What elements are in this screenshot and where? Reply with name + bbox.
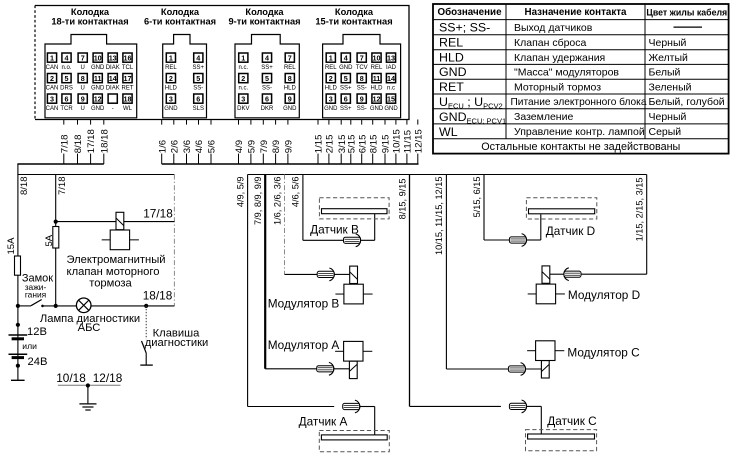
svg-text:4: 4 (65, 53, 69, 62)
svg-text:DRS: DRS (60, 86, 73, 92)
svg-text:9-ти контактная: 9-ти контактная (228, 16, 300, 26)
svg-text:"Масса" модуляторов: "Масса" модуляторов (514, 67, 619, 79)
svg-text:2: 2 (169, 74, 173, 83)
table row 4: "Масса" модуляторов (439, 65, 681, 79)
wire 18/18 (bottom horizontal) (18, 305, 175, 307)
wire plug to sensor C (526, 406, 541, 434)
svg-text:6: 6 (65, 94, 69, 103)
node: junction 7/18 wire at 18/18 (54, 304, 58, 308)
svg-text:17/18: 17/18 (143, 207, 173, 221)
wire stub pin 8/18 (72, 120, 84, 165)
svg-text:7: 7 (288, 53, 292, 62)
svg-text:8/15: 8/15 (368, 135, 379, 154)
svg-text:Электромагнитный: Электромагнитный (66, 254, 165, 266)
label channel 5/15, 6/15 (472, 177, 482, 218)
connector X2 6-pin (163, 35, 207, 118)
label: Датчик D (546, 224, 595, 238)
svg-text:DKR: DKR (261, 106, 274, 112)
modulator A valve (mirrored) (335, 341, 372, 378)
label: или (or) (22, 341, 37, 351)
pin 3 CAN of X1 18-pin (46, 94, 59, 112)
svg-text:DKV: DKV (237, 106, 249, 112)
pin 7 TCV of X4 15-pin (356, 53, 368, 71)
pin 4 GND of X4 15-pin (339, 53, 353, 71)
svg-text:Белый: Белый (649, 67, 681, 79)
svg-text:n.o.: n.o. (61, 65, 71, 71)
wire stub pin 4/6 (193, 120, 205, 165)
svg-text:7/18: 7/18 (59, 135, 70, 154)
pin 10 GND of X1 18-pin (91, 53, 105, 71)
wire stub pin 9/9 (283, 120, 295, 165)
svg-text:17: 17 (124, 74, 132, 83)
wire stub pin 11/15 (402, 120, 414, 165)
pin 11 HLD of X4 15-pin (370, 74, 383, 92)
pin 1 REL of X2 6-pin (165, 53, 177, 71)
plug connector modulator D (564, 268, 581, 281)
label channel 7/9, 8/9, 9/9 (253, 177, 263, 226)
pin 2 CAN of X1 18-pin (46, 74, 59, 92)
svg-text:18/18: 18/18 (99, 129, 110, 153)
svg-text:10: 10 (94, 53, 102, 62)
svg-text:RET: RET (439, 80, 464, 94)
svg-text:5/15: 5/15 (346, 135, 357, 154)
svg-text:13: 13 (109, 53, 117, 62)
table row 2: Клапан сброса (439, 36, 687, 50)
svg-text:10/18: 10/18 (56, 371, 86, 385)
wire channel 4/6,5/6 (sensor B) (303, 175, 375, 241)
sensor D element (526, 198, 596, 219)
battery G2 24V (9, 354, 28, 368)
node: junction 7/18 - 17/18 (54, 220, 58, 224)
svg-text:GND: GND (91, 106, 105, 112)
wire 7/18 (vertical through 5A fuse) (55, 175, 57, 306)
svg-text:Черный: Черный (649, 37, 687, 49)
svg-text:Датчик D: Датчик D (546, 224, 595, 238)
svg-text:18-ти контактная: 18-ти контактная (51, 16, 128, 26)
label wires 10/18 12/18 (56, 371, 122, 385)
wire stub pin 3/6 (181, 120, 193, 165)
label: Модулятор C (567, 345, 640, 359)
svg-text:3: 3 (169, 94, 173, 103)
svg-text:8: 8 (288, 74, 292, 83)
label wire 8/18 (19, 177, 30, 196)
pin 8 SS- of X4 15-pin (357, 74, 367, 92)
label channel 10/15, 11/15, 12/15 (434, 177, 444, 256)
wire stub pin 2/6 (168, 120, 180, 165)
table footer: unused contacts note (481, 141, 680, 153)
svg-text:Обозначение: Обозначение (437, 7, 502, 18)
svg-text:4: 4 (265, 53, 269, 62)
svg-text:TCL: TCL (122, 65, 134, 71)
svg-text:7/9: 7/9 (259, 140, 270, 153)
svg-text:13: 13 (387, 53, 395, 62)
table row 1: Выход датчиков (439, 21, 702, 35)
svg-text:SS+: SS+ (193, 65, 205, 71)
battery negative terminal bar (11, 379, 25, 381)
label wire 7/18 (57, 177, 68, 196)
svg-text:6/15: 6/15 (357, 135, 368, 154)
svg-text:GND: GND (164, 106, 178, 112)
svg-text:Модулятор C: Модулятор C (567, 345, 640, 359)
svg-text:n.c.: n.c. (238, 86, 248, 92)
pin 1 CAN of X1 18-pin (46, 53, 59, 71)
svg-text:8: 8 (360, 74, 364, 83)
svg-text:Серый: Серый (649, 126, 682, 138)
wire bus segment B (6/9/15-pin harness) (162, 163, 419, 165)
svg-text:REL: REL (371, 65, 383, 71)
svg-text:DIAK: DIAK (106, 86, 120, 92)
svg-text:SS+: SS+ (340, 106, 352, 112)
svg-text:GND: GND (283, 106, 297, 112)
svg-text:GND: GND (439, 65, 467, 79)
fuse F1 15A (15, 256, 21, 275)
table row 8: Управление контр. лампой (439, 125, 681, 139)
lamp H1 ABS diagnostic lamp (76, 298, 91, 313)
wire channel 8/15,9/15 (sensor C) (410, 175, 501, 407)
wire stub pin 5/15 (345, 120, 357, 165)
table row 7: Заземление (439, 110, 687, 126)
svg-text:SS-: SS- (262, 86, 272, 92)
pin 2 n.c. of X3 9-pin (238, 74, 248, 92)
svg-text:DIAK: DIAK (106, 65, 120, 71)
svg-text:7/18: 7/18 (57, 177, 68, 196)
svg-text:3: 3 (241, 94, 245, 103)
wire stub pin 1/6 (156, 120, 168, 165)
label channel 8/15, 9/15 (397, 179, 407, 220)
pin 16 TCL of X1 18-pin (122, 53, 134, 71)
modulator B valve (335, 266, 372, 304)
plug connector sensor A (343, 400, 360, 413)
wire plug to modulator A (334, 368, 350, 370)
plug connector sensor C (509, 400, 526, 413)
sensor A element (319, 431, 389, 452)
svg-text:6: 6 (344, 94, 348, 103)
wire channel 7/9,8/9,9/9 (modulator A) (265, 175, 327, 369)
label: Клавиша диагностики (145, 327, 209, 349)
svg-text:SLS: SLS (193, 106, 204, 112)
wire plug to modulator B (334, 273, 350, 275)
svg-text:Датчик B: Датчик B (310, 223, 359, 237)
svg-text:2: 2 (50, 74, 54, 83)
svg-text:2/15: 2/15 (325, 135, 336, 154)
wire channel 4/9,5/9 (sensor A) (248, 175, 335, 407)
svg-text:5/6: 5/6 (207, 140, 218, 153)
svg-text:U: U (81, 65, 85, 71)
svg-text:4/9, 5/9: 4/9, 5/9 (235, 177, 245, 208)
connector X4 15-pin (323, 35, 401, 118)
svg-text:3/6: 3/6 (182, 140, 193, 153)
svg-text:14: 14 (387, 74, 395, 83)
label: Датчик A (299, 415, 348, 429)
left block top edge (17, 174, 174, 176)
pin 3 DKV of X3 9-pin (237, 94, 249, 112)
pin 5 SS- of X2 6-pin (193, 74, 203, 92)
wire 17/18 (to electromagnetic valve) (56, 221, 175, 223)
svg-text:WL: WL (123, 106, 133, 112)
svg-text:8: 8 (81, 74, 85, 83)
left block dashed right edge (173, 175, 175, 306)
svg-text:5/15, 6/15: 5/15, 6/15 (472, 177, 482, 218)
wire 8/18 (left vertical feed) (17, 164, 19, 306)
svg-text:10/15, 11/15, 12/15: 10/15, 11/15, 12/15 (434, 177, 444, 256)
pin 10 REL of X4 15-pin (371, 53, 383, 71)
pin 9 GND of X3 9-pin (283, 94, 297, 112)
pin 5 SS+ of X4 15-pin (340, 74, 352, 92)
label channel 1/6, 2/6, 3/6 (272, 177, 282, 226)
svg-text:11: 11 (94, 74, 102, 83)
wire channel 1/15,2/15,3/15 (modulator D, right edge) (575, 175, 647, 275)
svg-text:9: 9 (288, 94, 292, 103)
wire plug to sensor A (360, 407, 375, 435)
svg-text:HLD: HLD (439, 50, 464, 64)
svg-text:7: 7 (360, 53, 364, 62)
label battery 12В (27, 326, 47, 338)
label: Электромагнитный клапан моторного тормоза (66, 254, 165, 290)
pin 6 TCR of X1 18-pin (60, 94, 73, 112)
wire stub pin 18/18 (98, 120, 110, 165)
label: title connector 18-ти контактная (51, 7, 128, 26)
svg-text:1/15, 2/15, 3/15: 1/15, 2/15, 3/15 (635, 178, 645, 242)
svg-text:HLD: HLD (325, 86, 338, 92)
wire stub pin 17/18 (85, 120, 97, 165)
svg-text:3: 3 (50, 94, 54, 103)
label: Лампа диагностики АБС (40, 313, 140, 334)
wire stub pin 10/15 (391, 120, 403, 165)
svg-text:2/6: 2/6 (169, 140, 180, 153)
label: Датчик B (310, 223, 359, 237)
svg-text:IAD: IAD (386, 65, 397, 71)
pin 2 HLD of X2 6-pin (165, 74, 178, 92)
svg-text:гания: гания (25, 289, 46, 299)
svg-text:12: 12 (94, 94, 102, 103)
svg-text:4/6, 5/6: 4/6, 5/6 (291, 177, 301, 208)
svg-text:1/6, 2/6, 3/6: 1/6, 2/6, 3/6 (272, 177, 282, 226)
svg-text:6: 6 (196, 94, 200, 103)
table row 5: Моторный тормоз (439, 80, 692, 94)
svg-text:HLD: HLD (284, 86, 297, 92)
plug connector sensor B (344, 234, 361, 247)
pin 8 U of X1 18-pin (78, 74, 87, 92)
svg-text:11/15: 11/15 (403, 130, 414, 153)
pin 13 IAD of X4 15-pin (386, 53, 397, 71)
wire channel 1/6,2/6,3/6 (modulator B, dash-dot) (285, 175, 328, 275)
svg-text:7: 7 (81, 53, 85, 62)
svg-text:4/9: 4/9 (234, 140, 245, 153)
connector X3 9-pin (235, 35, 299, 118)
svg-text:Выход датчиков: Выход датчиков (514, 22, 593, 34)
svg-text:Модулятор D: Модулятор D (568, 288, 640, 302)
node: junction diagnostic key tap (144, 304, 148, 308)
svg-text:2: 2 (241, 74, 245, 83)
svg-text:5: 5 (196, 74, 200, 83)
ground symbol (79, 404, 96, 410)
svg-text:тормоза: тормоза (89, 278, 132, 290)
svg-text:8/18: 8/18 (19, 177, 30, 196)
svg-text:Желтый: Желтый (649, 52, 689, 64)
label: title connector 15-ти контактная (315, 7, 392, 26)
svg-text:9: 9 (360, 94, 364, 103)
svg-text:11: 11 (373, 74, 381, 83)
pin 12 GND of X4 15-pin (370, 94, 384, 112)
pin 15 GND of X4 15-pin (384, 94, 398, 112)
pin 9 SS- of X4 15-pin (357, 94, 367, 112)
svg-text:REL: REL (439, 36, 463, 50)
svg-text:7/9, 8/9, 9/9: 7/9, 8/9, 9/9 (253, 177, 263, 226)
svg-text:TCV: TCV (356, 65, 368, 71)
sensor C element (526, 430, 597, 451)
pin blank - of X1 18-pin (108, 94, 117, 112)
pin 9 U of X1 18-pin (78, 94, 87, 112)
wire channel 10/15,11/15,12/15 (modulator C) (446, 175, 508, 370)
svg-text:1: 1 (329, 53, 333, 62)
label wire 17/18 (143, 207, 173, 221)
wire stub pin 8/9 (270, 120, 282, 165)
modulator D valve (528, 266, 565, 304)
svg-text:-: - (112, 106, 114, 112)
pin 11 GND of X1 18-pin (91, 74, 105, 92)
svg-text:8/18: 8/18 (73, 135, 84, 154)
svg-text:18/18: 18/18 (143, 289, 173, 303)
pin 3 GND of X4 15-pin (324, 94, 338, 112)
svg-text:24В: 24В (28, 356, 48, 368)
pin 4 n.o. of X1 18-pin (61, 53, 71, 71)
wire plug to modulator C (525, 368, 541, 370)
svg-text:12/15: 12/15 (413, 129, 424, 153)
svg-text:Остальные контакты не задейств: Остальные контакты не задействованы (481, 141, 680, 153)
svg-text:GND: GND (91, 86, 105, 92)
label: Модулятор B (268, 296, 340, 310)
svg-text:клапан моторного: клапан моторного (67, 266, 160, 278)
svg-text:5: 5 (65, 74, 69, 83)
svg-text:REL: REL (284, 65, 296, 71)
svg-text:5: 5 (344, 74, 348, 83)
wire stub pin 5/6 (206, 120, 218, 165)
pin 4 SS+ of X3 9-pin (261, 53, 273, 71)
svg-text:9: 9 (81, 94, 85, 103)
svg-text:REL: REL (325, 65, 337, 71)
wire plug to sensor D (526, 214, 540, 240)
middle/right harness top edge (248, 174, 647, 176)
plug connector sensor D (509, 234, 526, 247)
wire stub pin 3/15 (336, 120, 348, 165)
pin 18 WL of X1 18-pin (123, 94, 133, 112)
wire plug to modulator D (550, 273, 564, 275)
pin 5 DRS of X1 18-pin (60, 74, 73, 92)
label wire 18/18 (143, 289, 173, 303)
pin 7 REL of X3 9-pin (284, 53, 296, 71)
svg-text:GND: GND (324, 106, 338, 112)
svg-text:GND: GND (384, 106, 398, 112)
svg-text:12/18: 12/18 (93, 371, 123, 385)
svg-text:SS-: SS- (193, 86, 203, 92)
connector X1 18-pin (45, 35, 137, 118)
svg-text:Клапан сброса: Клапан сброса (514, 37, 587, 49)
wire stub pin 4/9 (233, 120, 245, 165)
svg-text:9/9: 9/9 (284, 140, 295, 153)
svg-text:CAN: CAN (46, 65, 59, 71)
svg-text:WL: WL (439, 125, 458, 139)
battery G1 12V (9, 323, 28, 339)
pin 17 RET of X1 18-pin (122, 74, 134, 92)
svg-text:GND: GND (339, 65, 353, 71)
svg-text:Моторный тормоз: Моторный тормоз (514, 81, 601, 93)
svg-text:Модулятор A: Модулятор A (268, 338, 340, 352)
svg-text:RET: RET (122, 86, 134, 92)
label: Модулятор D (568, 288, 640, 302)
svg-text:14: 14 (109, 74, 117, 83)
svg-text:АБС: АБС (78, 322, 101, 334)
wire channel 5/15,6/15 (sensor D) (484, 175, 518, 241)
pin 13 DIAK of X1 18-pin (106, 53, 120, 71)
svg-text:Питание электронного блока: Питание электронного блока (511, 96, 647, 108)
svg-text:Зеленый: Зеленый (649, 81, 692, 93)
svg-text:SS-: SS- (357, 86, 367, 92)
label: Модулятор A (268, 338, 340, 352)
svg-text:SS+: SS+ (261, 65, 273, 71)
svg-text:15: 15 (387, 94, 395, 103)
table: wire designation legend (433, 4, 729, 154)
svg-text:12В: 12В (27, 326, 47, 338)
svg-text:SS+; SS-: SS+; SS- (439, 21, 490, 35)
label channel 4/9, 5/9 (235, 177, 245, 208)
wire stub pin 5/9 (246, 120, 258, 165)
label: Датчик C (547, 414, 597, 428)
label fuse 15A (6, 237, 17, 255)
svg-text:SS-: SS- (357, 106, 367, 112)
svg-text:Черный: Черный (649, 111, 687, 123)
svg-text:1: 1 (169, 53, 173, 62)
wire stub pin 8/15 (367, 120, 379, 165)
plug connector modulator C (508, 363, 525, 376)
svg-text:TCR: TCR (60, 106, 73, 112)
svg-text:n.c.: n.c. (238, 65, 248, 71)
wire battery chain vertical (17, 306, 19, 380)
modulator C valve (mirrored) (527, 341, 564, 378)
svg-text:Управление контр. лампой: Управление контр. лампой (514, 126, 645, 138)
svg-text:диагностики: диагностики (145, 337, 209, 349)
svg-text:Датчик C: Датчик C (547, 414, 597, 428)
solenoid valve Y1 (engine brake electromagnetic valve) (102, 212, 139, 249)
svg-text:16: 16 (124, 53, 132, 62)
pin 1 n.c. of X3 9-pin (238, 53, 248, 71)
svg-text:n.c: n.c (387, 86, 395, 92)
wire stub pin 12/15 (412, 120, 424, 165)
wire bus segment A (18-pin harness) (17, 163, 103, 165)
svg-text:17/18: 17/18 (86, 129, 97, 153)
wire stub pin 6/15 (356, 120, 368, 165)
svg-text:или: или (22, 341, 37, 351)
label: Замок зажигания (22, 273, 53, 300)
svg-text:REL: REL (165, 65, 177, 71)
svg-text:1/6: 1/6 (157, 140, 168, 153)
svg-text:6-ти контактная: 6-ти контактная (144, 16, 216, 26)
label: title connector 9-ти контактная (228, 7, 300, 26)
plug connector modulator B (317, 268, 334, 281)
pin 8 HLD of X3 9-pin (284, 74, 297, 92)
plug connector modulator A (317, 362, 334, 375)
pin 14 n.c of X4 15-pin (386, 74, 395, 92)
svg-text:HLD: HLD (370, 86, 383, 92)
svg-text:5А: 5А (44, 234, 55, 246)
pin 14 DIAK of X1 18-pin (106, 74, 120, 92)
svg-text:4: 4 (196, 53, 200, 62)
pin 6 SLS of X2 6-pin (193, 94, 204, 112)
wire stub pin 9/15 (380, 120, 392, 165)
svg-text:SS+: SS+ (340, 86, 352, 92)
label channel 4/6, 5/6 (291, 177, 301, 208)
svg-text:10: 10 (373, 53, 381, 62)
svg-text:8/15, 9/15: 8/15, 9/15 (397, 179, 407, 220)
